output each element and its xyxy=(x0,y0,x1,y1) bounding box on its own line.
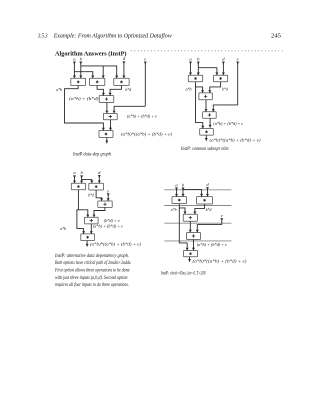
wire a branch to mul2 left input xyxy=(74,72,94,79)
wire add5 output to add6 right xyxy=(93,207,105,217)
wire add7 output to add8 left xyxy=(189,221,192,232)
adder A7 ((a*b)+(b*d)) xyxy=(183,214,197,221)
adder A4 ((a*b)+(b*d)+e) xyxy=(203,112,217,118)
arrowhead d into mul9 xyxy=(98,181,101,184)
dotted leader xyxy=(131,50,284,52)
arrowhead a into mul1 xyxy=(73,76,76,79)
input e xyxy=(144,56,147,106)
wire add6 output to final mul right xyxy=(90,224,93,234)
svg-text:b: b xyxy=(80,170,83,175)
wire a*b long route to final multiplier xyxy=(65,86,105,131)
multiplier M4 final xyxy=(99,131,113,138)
svg-text:(a*b) + (b*d) + e: (a*b) + (b*d) + e xyxy=(127,114,157,119)
arrowhead d into mul2 xyxy=(222,73,225,76)
input e xyxy=(236,56,239,105)
adder A5 ((b*d)+e) xyxy=(98,201,112,207)
svg-text:(a*b) + (b*d): (a*b) + (b*d) xyxy=(69,96,99,101)
input b xyxy=(197,56,200,75)
svg-text:e: e xyxy=(144,56,146,61)
wire final output D4 xyxy=(188,257,191,262)
wire mul5 output to add3 left xyxy=(196,82,205,93)
wire b branch to mul2 left xyxy=(198,68,218,76)
multiplier M9 (b*d) xyxy=(89,183,104,190)
input b xyxy=(79,56,82,78)
svg-text:InstP: alternative data depen: InstP: alternative data dependency graph… xyxy=(54,254,129,259)
svg-text:d: d xyxy=(206,182,209,187)
adder A6 ((a*b)+(b*d)+e) xyxy=(85,217,99,224)
wire add8 output to final mul right xyxy=(192,240,195,251)
input a xyxy=(73,170,76,183)
svg-text:245: 245 xyxy=(271,33,281,39)
stage line 3 xyxy=(164,222,231,224)
input a xyxy=(73,56,76,78)
svg-text:a: a xyxy=(73,170,76,175)
multiplier M12 (b*d) xyxy=(197,197,213,204)
arrowhead d into mul3 xyxy=(122,76,125,79)
wire final output D2 xyxy=(205,135,208,141)
svg-text:(a*b) + (b*d) + e: (a*b) + (b*d) + e xyxy=(197,242,227,247)
multiplier M1 (a*b) xyxy=(71,78,86,85)
svg-text:3.5.3: 3.5.3 xyxy=(37,33,47,39)
adder A3 ((a*b)+(b*d)) xyxy=(199,93,212,100)
svg-text:Example: From Algorithm to Opt: Example: From Algorithm to Optimized Dat… xyxy=(53,32,173,39)
stage line 2 xyxy=(164,205,231,207)
arrowhead b into mul1 xyxy=(197,73,200,76)
multiplier M13 final xyxy=(184,251,198,257)
svg-text:First option allows three oper: First option allows three operations to … xyxy=(54,269,130,274)
svg-text:a*b: a*b xyxy=(60,226,66,231)
wire final output D3 xyxy=(86,241,89,247)
wire add4 output to final mul right xyxy=(209,118,212,127)
multiplier M7 final xyxy=(200,129,214,136)
wire b to mul2 right input xyxy=(102,66,105,78)
svg-text:InstP data-dep graph: InstP data-dep graph xyxy=(72,152,111,158)
adder A1 ((a*b)+(b*d)) xyxy=(99,96,114,103)
svg-text:(a*b) + (b*d) + e: (a*b) + (b*d) + e xyxy=(93,224,123,229)
multiplier M6 (b*d) xyxy=(214,75,228,82)
input b xyxy=(182,182,185,196)
arrowhead b into mul1 xyxy=(79,76,82,79)
svg-text:d: d xyxy=(222,56,225,61)
stage line 1 xyxy=(164,189,231,191)
svg-text:Both options have critical pat: Both options have critical path of 2mult… xyxy=(55,261,131,266)
input d xyxy=(98,170,101,183)
wire mul11 output to add7 left xyxy=(179,204,186,215)
svg-text:e: e xyxy=(237,56,239,61)
wire a*b into final mul left xyxy=(82,228,85,234)
wire b branch to mul9 left xyxy=(82,180,94,184)
wire add1 output to add2 left xyxy=(105,103,108,114)
svg-text:(a*b)*((a*b) + (b*d) + e): (a*b)*((a*b) + (b*d) + e) xyxy=(90,242,141,247)
input a xyxy=(189,56,192,75)
wire mul6 output to add3 right xyxy=(208,82,220,93)
svg-text:a: a xyxy=(175,182,178,187)
wire e to add2 right xyxy=(113,106,146,113)
wire a*b into final mul left xyxy=(201,122,204,128)
wire a*b from mul8 down xyxy=(77,190,84,229)
input a xyxy=(175,182,178,196)
adder A2 ((a*b)+(b*d)+e) xyxy=(103,113,117,119)
wire b branch to mul12 left xyxy=(183,190,203,197)
multiplier M3 (b*d) xyxy=(114,78,129,85)
svg-text:b: b xyxy=(197,56,200,61)
svg-text:b*d: b*d xyxy=(222,86,228,91)
multiplier M5 (a*b) xyxy=(188,75,202,82)
wire mul2 output to add1 left xyxy=(97,86,105,96)
svg-text:(a*b)*((a*b) + (b*d) + e): (a*b)*((a*b) + (b*d) + e) xyxy=(210,138,261,143)
arrowhead b into mul3 left xyxy=(115,76,118,79)
wire a*b into final mul left D4 xyxy=(186,243,189,251)
svg-text:InstP: common subexpr elim: InstP: common subexpr elim xyxy=(180,146,229,152)
arrowhead a into mul8 xyxy=(73,181,76,184)
input e xyxy=(220,213,223,225)
wire a*b long route down D4 xyxy=(179,208,187,243)
svg-text:a: a xyxy=(189,56,192,61)
svg-text:e: e xyxy=(221,213,223,218)
svg-text:b*d: b*d xyxy=(206,207,212,212)
wire mul9 output to add5 left xyxy=(96,190,103,201)
svg-text:InstP: clock=45ns, lat=4, T=20: InstP: clock=45ns, lat=4, T=200 xyxy=(160,269,205,276)
arrowhead d into mul12 xyxy=(206,194,209,197)
wire a*b branch to add6 left xyxy=(78,210,89,218)
arrowhead e into add5 xyxy=(107,198,110,201)
svg-text:b*d: b*d xyxy=(88,193,94,198)
arrowhead b into mul8 xyxy=(80,181,83,184)
input d xyxy=(122,56,125,78)
multiplier M10 final xyxy=(81,234,95,241)
input b xyxy=(80,170,83,183)
arrowhead b into mul11 xyxy=(182,194,185,197)
arrowhead a into mul11 xyxy=(175,194,178,197)
wire e to add8 right xyxy=(196,225,222,233)
wire final output xyxy=(105,138,108,144)
wire b branch to mul2 and mul3 xyxy=(81,66,117,78)
wire mul3 output to add1 right xyxy=(109,86,122,96)
svg-text:a*b: a*b xyxy=(56,87,62,92)
svg-text:d: d xyxy=(98,170,101,175)
wire add2 output to final multiplier right xyxy=(109,120,112,131)
input d xyxy=(222,56,225,75)
wire e to add4 right xyxy=(212,105,238,112)
svg-text:e: e xyxy=(107,188,109,193)
arrowhead a into mul1 xyxy=(189,73,192,76)
svg-text:(a*b)*((a*b) + (b*d) + e): (a*b)*((a*b) + (b*d) + e) xyxy=(121,132,172,137)
wire add3 output to add4 left xyxy=(205,100,208,112)
svg-text:a*b: a*b xyxy=(171,207,177,212)
svg-text:requires all four inputs to do: requires all four inputs to do three ope… xyxy=(55,283,129,288)
svg-text:b: b xyxy=(182,182,185,187)
wire a*b long route down xyxy=(196,87,203,123)
svg-text:with just three inputs (a,b,d): with just three inputs (a,b,d). Second o… xyxy=(55,276,128,281)
adder A8 ((a*b)+(b*d)+e) xyxy=(187,233,201,240)
multiplier M8 (a*b) xyxy=(71,183,85,190)
svg-text:(a*b) + (b*d) + e: (a*b) + (b*d) + e xyxy=(213,121,243,126)
svg-text:(b*d) + e: (b*d) + e xyxy=(104,218,120,223)
svg-text:Algorithm Answers (InstP): Algorithm Answers (InstP) xyxy=(55,50,127,57)
svg-text:(a*b)*((a*b) + (b*d) + e): (a*b)*((a*b) + (b*d) + e) xyxy=(193,258,248,263)
multiplier M2 (a*b) xyxy=(90,78,105,85)
svg-text:b*d: b*d xyxy=(125,87,131,92)
multiplier M11 (a*b) xyxy=(172,197,187,204)
wire mul12 output to add7 right xyxy=(193,204,204,214)
svg-text:a*b: a*b xyxy=(186,86,192,91)
stage line 4 xyxy=(164,240,231,242)
input d xyxy=(206,182,209,197)
input e xyxy=(107,188,110,201)
